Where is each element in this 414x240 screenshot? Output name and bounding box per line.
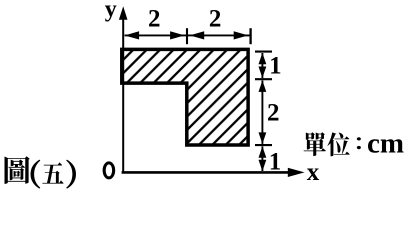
right dim span2 arrow up [259, 80, 267, 92]
top dim arrowhead left (at y-axis) [125, 31, 140, 39]
origin label O [103, 161, 116, 179]
CJK char 位 (unit label) [327, 132, 349, 156]
CJK char 圖 (figure caption) [4, 156, 29, 184]
y-axis line [122, 18, 124, 172]
right dimension tick middle [255, 78, 272, 80]
right dim span2 arrow down [259, 132, 267, 144]
svg-text:x: x [307, 159, 320, 186]
right dim span2 line (2) [261, 81, 263, 144]
top dim arrowhead left of span2 [190, 31, 205, 39]
y-axis arrowhead [119, 6, 128, 20]
CJK fullwidth colon ： (unit label) [357, 137, 361, 149]
svg-text:2: 2 [148, 6, 161, 33]
svg-text:1: 1 [269, 149, 282, 176]
top dimension right tick [249, 28, 251, 44]
top dim arrowhead right of span1 [170, 31, 185, 39]
x-axis arrowhead [288, 168, 305, 177]
CJK char 五 (figure caption) [42, 162, 63, 183]
right dim span1 arrow down [259, 67, 267, 79]
CJK char 單 (unit label) [304, 132, 326, 156]
right dim span1 arrow up [259, 53, 267, 65]
right dim span3 arrow down [259, 160, 267, 172]
svg-text:2: 2 [267, 100, 280, 127]
svg-text:cm: cm [367, 128, 404, 160]
right dimension tick top [255, 51, 272, 53]
right dim span1 line (1) [261, 53, 263, 78]
top dimension middle tick [186, 28, 188, 44]
svg-text:1: 1 [269, 53, 282, 80]
svg-text:y: y [105, 0, 117, 23]
right dim span3 line (1) [261, 146, 263, 171]
x-axis line [122, 171, 289, 174]
svg-text:2: 2 [209, 6, 222, 33]
top dim arrowhead right of span2 [234, 31, 249, 39]
fullwidth right paren ） (figure caption) [67, 160, 76, 188]
top dimension line (two spans of 2) [125, 34, 251, 36]
hatched L-shaped region (shaded area) [122, 49, 248, 145]
right dimension tick bottom [255, 144, 272, 146]
right dim span3 arrow up [259, 146, 267, 158]
fullwidth left paren （ (figure caption) [31, 160, 40, 188]
